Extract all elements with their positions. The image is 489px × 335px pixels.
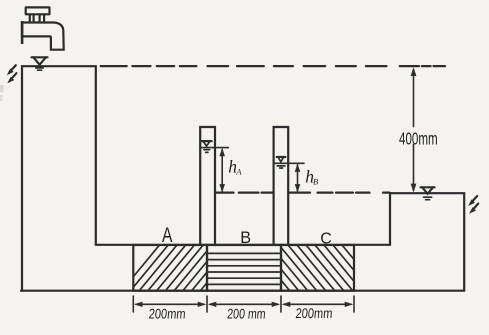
water surface symbol tube B [277, 157, 286, 168]
bottom dimension line B span [208, 302, 280, 307]
water surface symbol tube A [202, 141, 212, 152]
faucet [22, 7, 64, 49]
svg-text:400mm: 400mm [399, 129, 438, 149]
channel bottom line [21, 290, 464, 292]
svg-text:B: B [313, 177, 318, 187]
water surface symbol left tank [32, 57, 48, 70]
piezometer tube B [274, 127, 289, 245]
svg-text:A: A [235, 167, 242, 177]
top water level dashed line [101, 65, 445, 67]
piezometer tube A [200, 127, 215, 245]
right break marks [468, 196, 478, 214]
bottom dimension line C span [282, 302, 353, 307]
ledge line above blocks [96, 244, 390, 246]
bottom dimension ticks [133, 296, 354, 312]
dimension 400mm arrow [411, 67, 417, 192]
right basin wall [390, 193, 464, 291]
svg-text:A: A [162, 224, 173, 248]
svg-text:200 mm: 200 mm [227, 306, 267, 322]
soil block C [252, 245, 380, 291]
soil block A [122, 245, 247, 291]
svg-text:200mm: 200mm [295, 306, 333, 322]
dimension h_B [275, 163, 304, 192]
left break marks [7, 65, 17, 83]
soil block B [207, 245, 281, 291]
lower water level dashed line [215, 192, 389, 194]
water surface symbol right basin [421, 187, 435, 199]
left tank wall [22, 66, 96, 291]
dimension h_A [201, 148, 229, 193]
svg-text:200mm: 200mm [148, 306, 186, 322]
svg-text:C: C [320, 231, 332, 248]
edge artifact marks [0, 85, 4, 101]
bottom dimension line A span [134, 302, 206, 307]
svg-text:B: B [240, 229, 251, 247]
